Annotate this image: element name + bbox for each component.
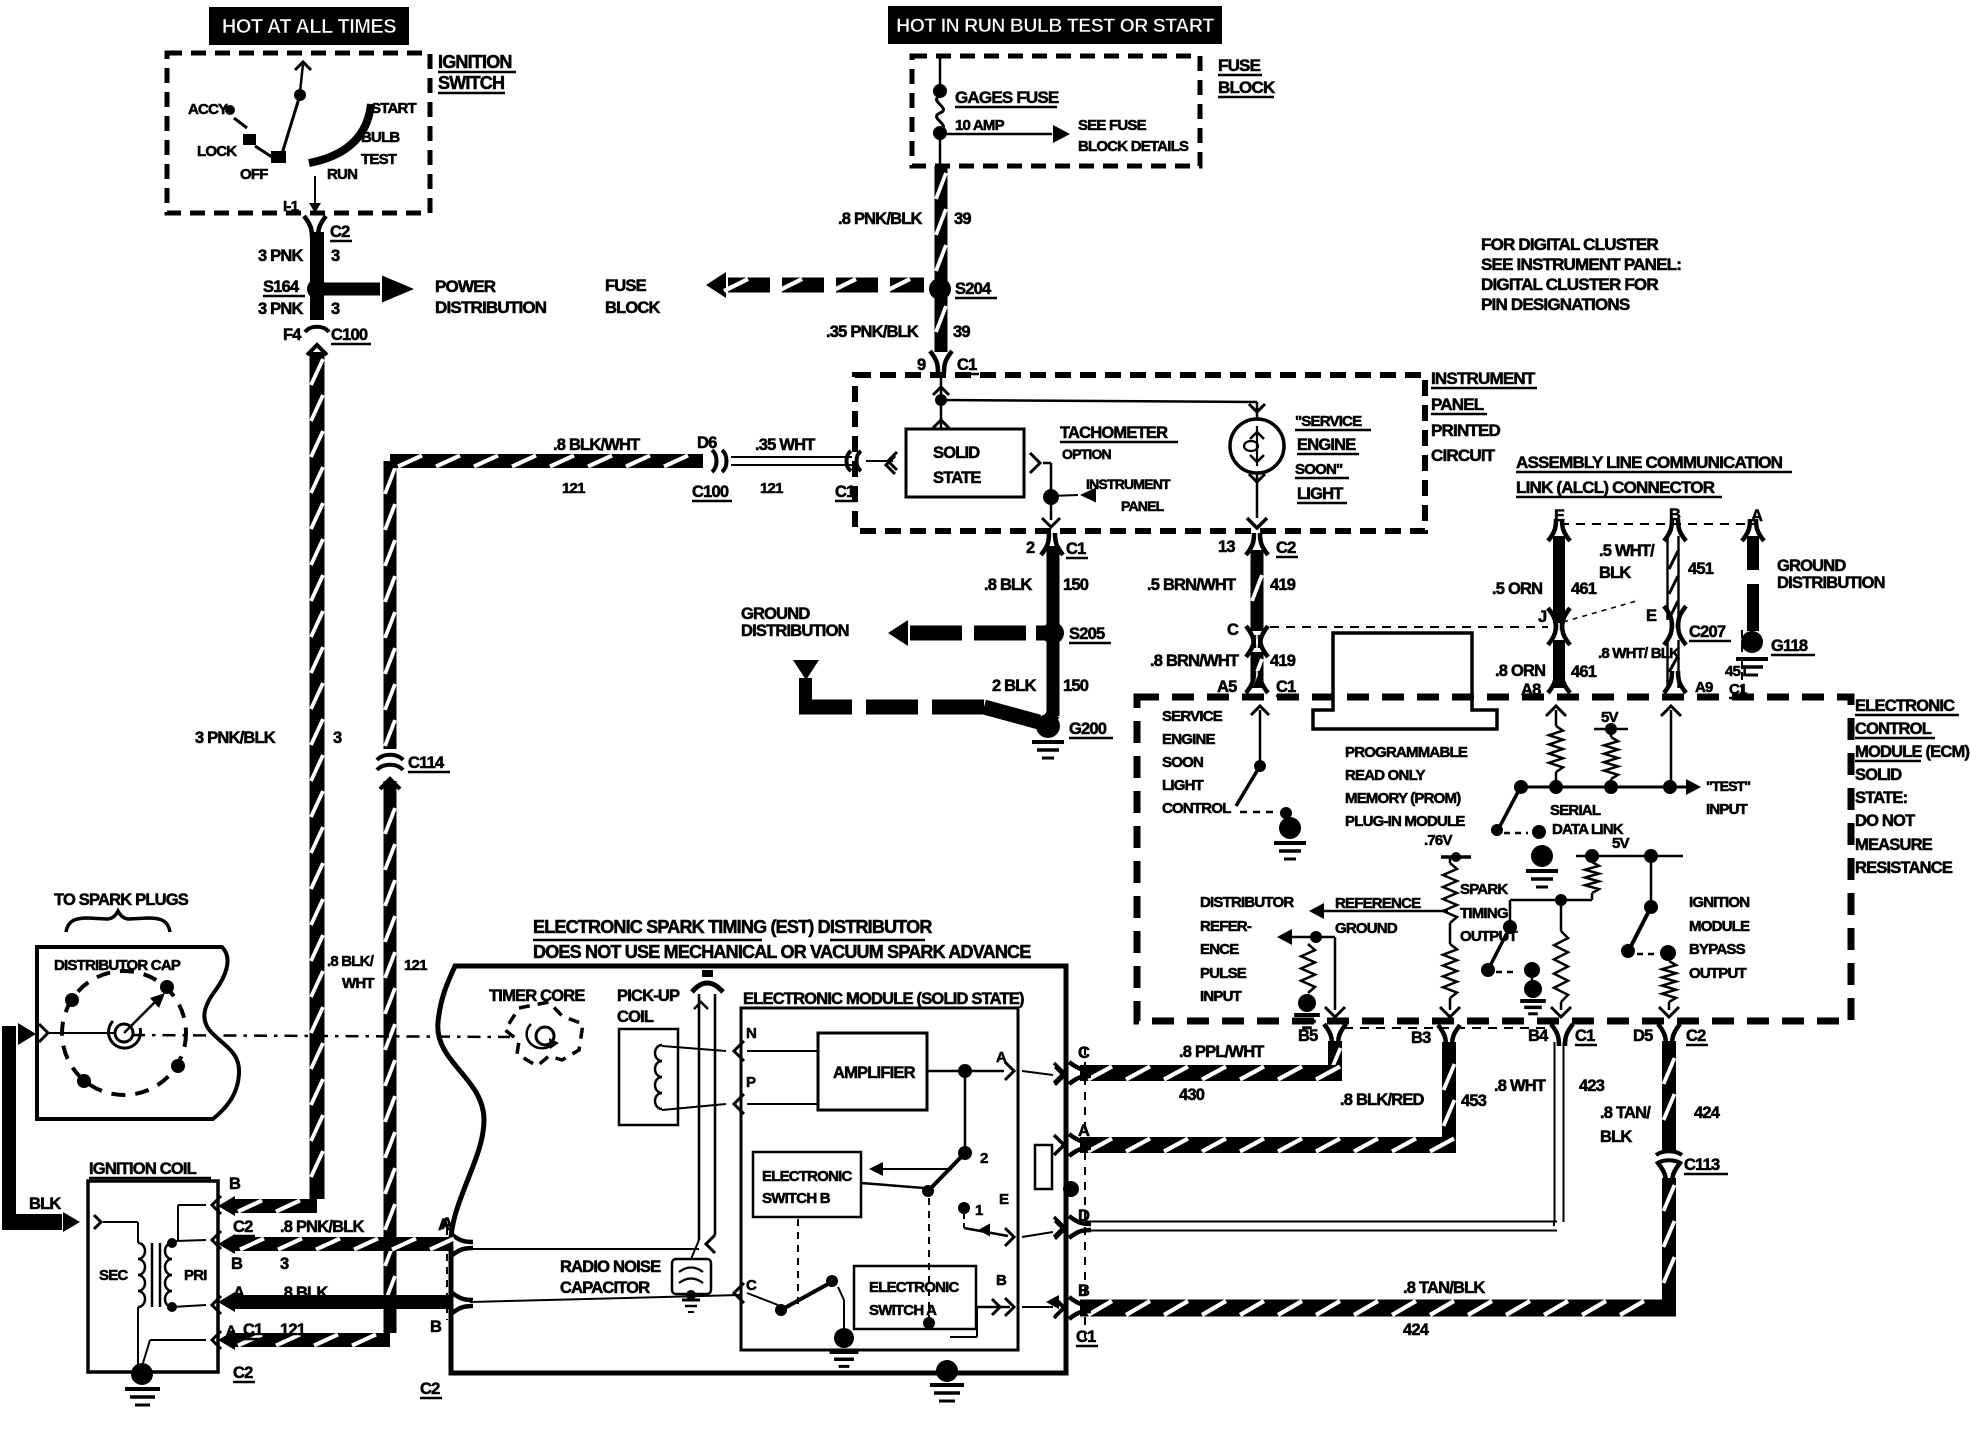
svg-text:TIMER CORE: TIMER CORE [489,987,585,1005]
svg-text:.8 BLK: .8 BLK [984,576,1032,594]
svg-text:A: A [226,1322,236,1338]
svg-text:ELECTRONIC: ELECTRONIC [869,1279,959,1296]
svg-text:PICK-UP: PICK-UP [617,987,680,1005]
svg-text:CAPACITOR: CAPACITOR [560,1279,650,1297]
svg-text:LOCK: LOCK [197,143,237,160]
svg-text:D5: D5 [1633,1027,1653,1045]
svg-text:SWITCH B: SWITCH B [762,1190,831,1207]
svg-text:TACHOMETER: TACHOMETER [1060,424,1168,442]
svg-text:ELECTRONIC MODULE (SOLID STATE: ELECTRONIC MODULE (SOLID STATE) [743,990,1024,1008]
svg-text:"SERVICE: "SERVICE [1295,413,1362,430]
svg-text:C1: C1 [1575,1027,1595,1045]
svg-text:LIGHT: LIGHT [1297,485,1343,503]
svg-text:INSTRUMENT: INSTRUMENT [1431,369,1536,388]
svg-text:COIL: COIL [617,1008,654,1026]
svg-text:PANEL: PANEL [1121,498,1165,514]
svg-text:3 PNK: 3 PNK [258,300,303,318]
svg-text:ACCY: ACCY [188,101,228,118]
svg-text:PRI: PRI [184,1267,207,1284]
svg-text:2: 2 [980,1150,988,1167]
svg-text:FOR DIGITAL CLUSTER: FOR DIGITAL CLUSTER [1481,235,1658,254]
svg-text:PULSE: PULSE [1200,965,1247,982]
svg-text:GROUND: GROUND [1335,920,1398,937]
svg-text:MEMORY (PROM): MEMORY (PROM) [1345,790,1461,807]
svg-text:GROUND: GROUND [1777,557,1846,575]
svg-text:B3: B3 [1411,1029,1431,1047]
svg-text:SOON": SOON" [1295,461,1343,478]
svg-text:C113: C113 [1684,1156,1720,1174]
svg-text:461: 461 [1571,580,1597,598]
svg-text:DISTRIBUTION: DISTRIBUTION [1777,574,1885,592]
svg-text:B: B [996,1272,1007,1289]
svg-text:DISTRIBUTOR: DISTRIBUTOR [1200,894,1294,911]
svg-text:3: 3 [331,300,340,318]
svg-text:PANEL: PANEL [1431,395,1484,414]
svg-text:423: 423 [1579,1077,1605,1095]
svg-text:BLK: BLK [1600,1128,1632,1146]
svg-text:N: N [746,1025,756,1042]
svg-text:C2: C2 [420,1380,440,1398]
svg-text:HOT AT ALL TIMES: HOT AT ALL TIMES [222,16,396,38]
svg-text:3: 3 [333,729,342,747]
svg-text:GAGES FUSE: GAGES FUSE [955,88,1059,107]
svg-text:C1: C1 [1066,540,1086,558]
svg-text:C: C [1227,621,1239,639]
svg-text:461: 461 [1571,663,1597,681]
svg-text:ELECTRONIC SPARK TIMING (EST): ELECTRONIC SPARK TIMING (EST) DISTRIBUTO… [533,917,932,937]
svg-text:WHT: WHT [342,975,374,992]
svg-text:SOLID: SOLID [1855,766,1902,784]
svg-text:121: 121 [280,1321,306,1339]
svg-text:POWER: POWER [435,277,496,296]
svg-text:A: A [441,1215,453,1233]
svg-text:RADIO NOISE: RADIO NOISE [560,1258,661,1276]
svg-text:CONTROL: CONTROL [1855,720,1932,738]
svg-text:1: 1 [975,1202,983,1219]
svg-text:TO SPARK PLUGS: TO SPARK PLUGS [54,891,189,909]
svg-text:MODULE (ECM): MODULE (ECM) [1855,743,1969,761]
svg-text:2: 2 [1026,539,1035,557]
svg-text:C1: C1 [243,1321,263,1339]
svg-text:BULB: BULB [361,129,400,146]
svg-text:BLOCK: BLOCK [605,299,661,317]
svg-text:E: E [999,1191,1009,1208]
svg-text:RUN: RUN [327,166,357,183]
svg-text:AMPLIFIER: AMPLIFIER [833,1064,916,1082]
svg-text:BLOCK DETAILS: BLOCK DETAILS [1078,138,1189,155]
svg-text:.8 TAN/BLK: .8 TAN/BLK [1403,1279,1485,1297]
svg-text:DISTRIBUTION: DISTRIBUTION [435,298,547,317]
svg-text:ELECTRONIC: ELECTRONIC [1855,697,1955,715]
svg-text:.8 PNK/BLK: .8 PNK/BLK [280,1218,365,1236]
svg-text:BLK: BLK [1599,564,1631,582]
svg-text:C114: C114 [408,754,445,772]
svg-text:G200: G200 [1069,720,1107,738]
svg-text:DISTRIBUTOR CAP: DISTRIBUTOR CAP [54,957,181,974]
svg-text:430: 430 [1179,1086,1205,1104]
svg-text:IGNITION: IGNITION [1689,894,1749,911]
svg-text:C1: C1 [957,356,977,374]
svg-text:C100: C100 [331,326,368,344]
svg-text:B: B [430,1318,442,1336]
svg-text:REFERENCE: REFERENCE [1335,895,1421,912]
svg-text:DO NOT: DO NOT [1855,812,1915,830]
svg-text:SEE INSTRUMENT PANEL:: SEE INSTRUMENT PANEL: [1481,255,1681,274]
svg-text:2 BLK: 2 BLK [992,677,1037,695]
svg-text:READ ONLY: READ ONLY [1345,767,1426,784]
svg-text:121: 121 [760,480,783,497]
svg-text:.8 BLK/WHT: .8 BLK/WHT [553,436,640,454]
svg-text:.35 WHT: .35 WHT [755,436,815,454]
svg-text:39: 39 [953,323,970,341]
svg-text:P: P [746,1074,756,1091]
svg-text:.76V: .76V [1424,832,1452,849]
svg-text:G118: G118 [1771,637,1808,655]
svg-text:SEE FUSE: SEE FUSE [1078,117,1147,134]
svg-text:C207: C207 [1689,623,1726,641]
svg-text:.5 WHT/: .5 WHT/ [1599,542,1655,560]
svg-text:3 PNK/BLK: 3 PNK/BLK [195,729,276,747]
svg-text:453: 453 [1461,1092,1487,1110]
svg-text:INPUT: INPUT [1706,801,1748,818]
svg-text:.8 PNK/BLK: .8 PNK/BLK [838,210,923,228]
svg-text:BLK: BLK [29,1195,61,1213]
svg-text:ELECTRONIC: ELECTRONIC [762,1168,852,1185]
svg-text:3: 3 [331,247,340,265]
svg-text:.8 WHT/ BLK: .8 WHT/ BLK [1598,645,1680,662]
svg-text:C2: C2 [233,1218,253,1236]
svg-text:HOT IN RUN BULB TEST OR START: HOT IN RUN BULB TEST OR START [896,15,1214,37]
svg-text:B: B [229,1175,241,1193]
svg-text:FUSE: FUSE [1218,56,1261,75]
svg-text:BYPASS: BYPASS [1689,941,1746,958]
svg-text:.8 BRN/WHT: .8 BRN/WHT [1150,652,1239,670]
svg-text:ENGINE: ENGINE [1162,731,1216,748]
svg-text:SEC: SEC [99,1267,128,1284]
svg-text:SPARK: SPARK [1460,881,1508,898]
svg-text:SWITCH A: SWITCH A [869,1302,937,1319]
svg-text:IGNITION: IGNITION [438,52,512,72]
svg-text:PROGRAMMABLE: PROGRAMMABLE [1345,744,1468,761]
svg-text:C2: C2 [330,223,350,241]
svg-text:INSTRUMENT: INSTRUMENT [1086,476,1171,492]
svg-text:OUTPUT: OUTPUT [1689,965,1747,982]
svg-text:ASSEMBLY LINE COMMUNICATION: ASSEMBLY LINE COMMUNICATION [1516,453,1783,472]
svg-text:C100: C100 [692,483,729,501]
svg-text:DOES NOT USE MECHANICAL OR VAC: DOES NOT USE MECHANICAL OR VACUUM SPARK … [533,942,1031,962]
svg-text:"TEST": "TEST" [1706,778,1750,794]
svg-text:3: 3 [280,1255,289,1273]
svg-text:ENGINE: ENGINE [1297,436,1356,454]
svg-text:.8 TAN/: .8 TAN/ [1600,1104,1651,1122]
svg-text:A9: A9 [1695,679,1713,696]
svg-text:E: E [1646,607,1657,625]
svg-text:419: 419 [1270,652,1296,670]
svg-text:C2: C2 [1686,1027,1706,1045]
svg-text:A5: A5 [1217,678,1237,696]
svg-text:OUTPUT: OUTPUT [1460,928,1518,945]
svg-text:.8 BLK/: .8 BLK/ [327,953,375,970]
svg-text:13: 13 [1218,538,1235,556]
svg-text:SERVICE: SERVICE [1162,708,1223,725]
svg-text:REFER-: REFER- [1200,918,1252,935]
svg-text:.8 BLK/RED: .8 BLK/RED [1340,1091,1425,1109]
svg-text:STATE:: STATE: [1855,789,1907,807]
svg-text:451: 451 [1688,560,1714,578]
svg-text:.8 PPL/WHT: .8 PPL/WHT [1179,1043,1264,1061]
svg-text:CIRCUIT: CIRCUIT [1431,446,1496,465]
svg-text:PIN DESIGNATIONS: PIN DESIGNATIONS [1481,295,1630,314]
svg-text:B5: B5 [1298,1027,1318,1045]
svg-text:150: 150 [1063,576,1089,594]
svg-text:SWITCH: SWITCH [438,73,504,93]
svg-text:.5 ORN: .5 ORN [1492,580,1542,598]
svg-text:STATE: STATE [933,469,981,487]
svg-text:.8 ORN: .8 ORN [1495,662,1545,680]
svg-text:TIMING: TIMING [1460,905,1508,922]
svg-text:121: 121 [562,480,585,497]
svg-text:.8 WHT: .8 WHT [1494,1077,1546,1095]
svg-text:S164: S164 [263,278,300,296]
svg-text:.5 BRN/WHT: .5 BRN/WHT [1147,576,1236,594]
svg-text:DISTRIBUTION: DISTRIBUTION [741,622,849,640]
svg-text:OPTION: OPTION [1062,446,1112,462]
svg-text:10 AMP: 10 AMP [955,117,1005,134]
svg-text:3 PNK: 3 PNK [258,247,303,265]
svg-text:RESISTANCE: RESISTANCE [1855,859,1953,877]
svg-text:121: 121 [404,957,427,974]
svg-text:SERIAL: SERIAL [1550,802,1601,819]
svg-text:C1: C1 [1276,678,1296,696]
svg-text:150: 150 [1063,677,1089,695]
svg-text:C: C [746,1277,757,1294]
svg-text:TEST: TEST [361,151,397,168]
svg-text:MEASURE: MEASURE [1855,836,1933,854]
svg-text:419: 419 [1270,576,1296,594]
svg-text:CONTROL: CONTROL [1162,800,1231,817]
svg-text:39: 39 [954,210,971,228]
svg-text:B4: B4 [1528,1027,1549,1045]
svg-text:C2: C2 [233,1364,253,1382]
svg-text:C1: C1 [1076,1328,1096,1346]
svg-text:FUSE: FUSE [605,277,647,295]
svg-text:A: A [996,1049,1007,1066]
svg-text:GROUND: GROUND [741,605,810,623]
svg-text:.35 PNK/BLK: .35 PNK/BLK [826,323,919,341]
svg-text:424: 424 [1403,1321,1430,1339]
svg-text:S205: S205 [1069,625,1105,643]
svg-text:INPUT: INPUT [1200,988,1242,1005]
svg-text:C2: C2 [1276,539,1296,557]
svg-text:OFF: OFF [240,166,268,183]
svg-text:I-1: I-1 [283,198,299,215]
svg-text:ENCE: ENCE [1200,941,1239,958]
svg-text:LINK (ALCL) CONNECTOR: LINK (ALCL) CONNECTOR [1516,478,1715,497]
svg-text:SOLID: SOLID [933,444,980,462]
svg-text:BLOCK: BLOCK [1218,78,1276,97]
svg-text:5V: 5V [1612,835,1630,852]
svg-text:B: B [231,1255,243,1273]
svg-text:MODULE: MODULE [1689,918,1750,935]
svg-text:424: 424 [1694,1104,1721,1122]
svg-text:LIGHT: LIGHT [1162,777,1204,794]
svg-text:9: 9 [917,356,926,374]
svg-text:SOON: SOON [1162,754,1203,771]
svg-text:F4: F4 [283,326,302,344]
svg-text:START: START [371,100,417,117]
svg-text:PLUG-IN MODULE: PLUG-IN MODULE [1345,813,1465,830]
svg-text:S204: S204 [955,280,992,298]
svg-text:J: J [1538,608,1547,626]
svg-text:IGNITION COIL: IGNITION COIL [89,1160,197,1178]
svg-text:PRINTED: PRINTED [1431,421,1501,440]
svg-text:DIGITAL CLUSTER FOR: DIGITAL CLUSTER FOR [1481,275,1658,294]
